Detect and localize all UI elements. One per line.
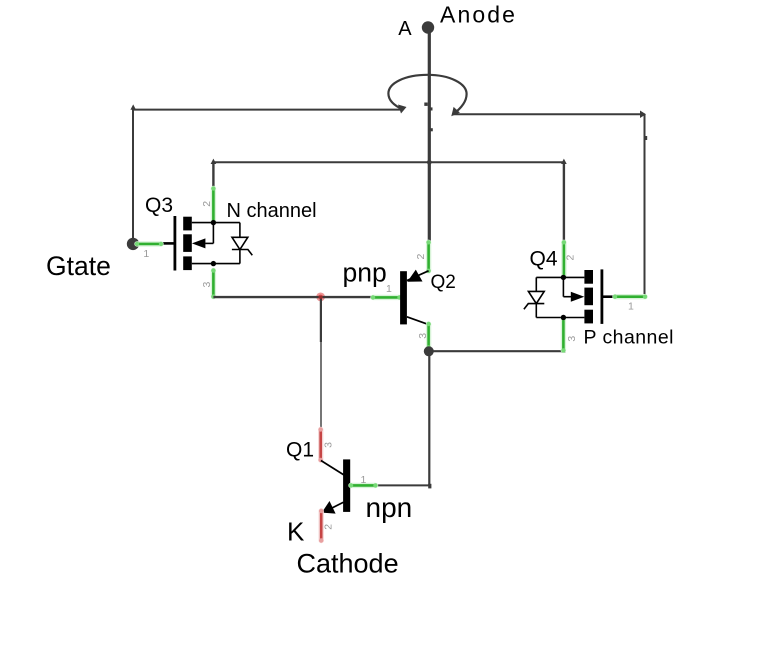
transistor Q1 (npn)	[321, 459, 350, 513]
svg-text:3: 3	[566, 336, 578, 342]
Q1 base bar	[343, 459, 350, 512]
svg-text:P channel: P channel	[584, 327, 674, 349]
wire Q3 drain drop dark	[212, 162, 214, 189]
Q3 body diode triangle	[232, 237, 248, 249]
svg-text:1: 1	[628, 301, 634, 313]
Q4 channel bar top	[584, 270, 593, 284]
wire gate right horizontal	[452, 113, 645, 115]
Q2 base bar	[400, 271, 407, 324]
Q3 body diode bottom lead	[239, 250, 241, 264]
svg-text:Q1: Q1	[286, 439, 314, 462]
svg-text:N channel: N channel	[227, 200, 317, 222]
pin wire Q2 pin2 green	[426, 240, 430, 273]
arrowhead at right arc end	[451, 107, 460, 116]
Q4 body diode triangle	[528, 291, 544, 303]
pin wire Q4 pin2 green	[562, 240, 566, 279]
Q2 emitter arrow	[407, 270, 422, 282]
svg-text:2: 2	[415, 254, 427, 260]
corner tick gate right	[640, 111, 646, 119]
transistor Q2 (pnp)	[400, 270, 429, 325]
Q4 body link vertical	[562, 277, 564, 296]
Q1 emitter diagonal (bottom)	[328, 502, 343, 510]
wire Q4 drain drop dark	[563, 162, 565, 242]
Q4 body diode top lead	[535, 277, 537, 291]
Q4 source link	[536, 317, 584, 319]
svg-text:1: 1	[386, 283, 392, 295]
svg-text:Q2: Q2	[431, 272, 456, 293]
svg-text:pnp: pnp	[343, 257, 387, 287]
Q3 source link	[192, 263, 240, 265]
svg-text:2: 2	[201, 201, 213, 207]
svg-text:Cathode: Cathode	[297, 548, 399, 578]
Q4 junction dot drain	[561, 275, 566, 280]
terminal dot A (anode)	[422, 21, 434, 33]
Q3 channel bar bottom	[183, 256, 192, 270]
transistor Q4 (P channel MOSFET)	[524, 269, 615, 324]
Q4 drain link	[536, 276, 584, 278]
pin wire Q3 pin3 green	[211, 268, 215, 299]
node Gtate terminal dot	[127, 238, 139, 250]
transistor Q3 (N channel MOSFET)	[161, 216, 252, 271]
stub dot on anode wire lower	[430, 128, 433, 131]
svg-text:3: 3	[201, 282, 213, 288]
Q3 drain link	[192, 222, 240, 224]
corner tick collector rail right	[562, 349, 566, 353]
corner tick base corner	[428, 484, 431, 489]
Q4 junction dot source	[561, 315, 566, 320]
wire red junction drop upper	[320, 297, 322, 342]
svg-text:K: K	[287, 516, 305, 546]
svg-text:Q3: Q3	[145, 194, 173, 217]
svg-text:Q4: Q4	[530, 248, 558, 271]
wire red junction drop lower thin	[320, 342, 322, 430]
Q3 body link horizontal	[205, 242, 213, 244]
svg-text:1: 1	[143, 248, 149, 260]
svg-text:2: 2	[322, 524, 334, 530]
pin wire Q4 pin1 green	[613, 295, 647, 299]
junction dot collector node	[424, 346, 434, 356]
Q3 channel bar top	[183, 217, 192, 231]
pin wire Q2 pin1 green	[371, 295, 402, 299]
svg-text:3: 3	[417, 333, 429, 339]
stub dot on anode wire upper	[424, 103, 427, 106]
wire gate left horizontal	[133, 109, 401, 111]
svg-text:2: 2	[565, 255, 577, 261]
Q1 collector diagonal (top)	[321, 461, 344, 476]
svg-text:Gtate: Gtate	[46, 251, 111, 281]
Q4 channel bar middle	[584, 288, 593, 306]
Q3 body diode top lead	[239, 223, 241, 238]
wire anode vertical	[428, 28, 431, 243]
wire gate right vertical	[644, 114, 646, 295]
svg-text:Anode: Anode	[440, 2, 517, 28]
Q4 body link horizontal	[563, 296, 572, 298]
pin wire Q2 pin3 green	[426, 322, 430, 350]
Q3 junction dot source	[211, 261, 216, 266]
wire hop loop arc	[388, 75, 466, 115]
Q1 emitter arrow	[322, 501, 336, 514]
svg-text:A: A	[398, 18, 412, 40]
Q3 body diode cathode bar with tail	[232, 250, 252, 256]
Q4 body diode cathode bar with tail	[524, 304, 544, 310]
pin wire Q1 pin2 red	[319, 509, 323, 543]
wire drain rail horizontal	[213, 161, 564, 163]
Q4 body diode bottom lead	[535, 304, 537, 318]
corner tick drain rail right	[561, 159, 567, 164]
pin wire Q3 pin2 green	[211, 186, 215, 224]
wire Q1 base horizontal	[375, 484, 430, 486]
Q3 junction dot drain	[211, 220, 216, 225]
Q4 channel bar bottom	[584, 310, 593, 324]
wire gate left vertical	[132, 109, 134, 244]
arrowhead at left arc end	[398, 105, 407, 114]
Q4 gate lead	[603, 295, 615, 298]
node dot red junction glow	[316, 293, 325, 302]
pin wire Q1 pin1 green	[349, 483, 378, 487]
Q2 emitter diagonal (top)	[407, 271, 429, 281]
junction dot drain rail x anode	[427, 160, 432, 165]
svg-text:npn: npn	[366, 492, 413, 523]
svg-text:3: 3	[322, 442, 334, 448]
corner tick drain rail left	[211, 159, 217, 164]
pin wire Q1 pin3 red	[319, 427, 323, 462]
Q3 gate lead	[161, 242, 174, 245]
Q4 body arrow	[571, 292, 585, 302]
Q4 gate bar	[601, 269, 604, 324]
kink stub on right gate vertical	[644, 136, 647, 140]
node dot red junction core	[318, 295, 323, 300]
stub dot on anode wire mid	[429, 107, 432, 110]
svg-text:1: 1	[361, 474, 367, 486]
pin wire Q4 pin3 green	[561, 316, 565, 353]
Q3 channel bar middle	[183, 234, 192, 252]
wire collector rail to Q4.3	[429, 350, 564, 352]
wire collector node drop	[428, 351, 430, 485]
Q3 body link vertical	[212, 223, 214, 244]
Q2 collector diagonal (bottom)	[407, 317, 429, 325]
Q3 gate bar	[173, 216, 176, 271]
corner tick gate left	[130, 104, 136, 109]
Q3 body arrow	[192, 238, 206, 248]
pin wire Q3 pin1 green	[135, 242, 163, 246]
wire base rail Q3.3 to Q2.1	[213, 296, 373, 298]
